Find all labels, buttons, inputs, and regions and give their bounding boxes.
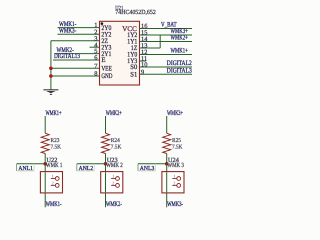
svg-text:DIGITAL13: DIGITAL13	[54, 53, 80, 60]
wire pin3 down to ground	[50, 41, 52, 90]
svg-text:VEE: VEE	[101, 66, 112, 73]
wire vertical bridge pins 15-13	[159, 35, 161, 48]
wire resistor to label WMK3-	[166, 154, 168, 208]
wire resistor to label WMK2-	[105, 154, 107, 208]
wire pin9 to DIGITAL3	[140, 73, 193, 75]
wire through connector U22	[44, 172, 46, 192]
wire pin10 to DIGITAL2	[140, 66, 193, 68]
junction at pin8 rail	[49, 74, 53, 78]
svg-text:1: 1	[52, 174, 54, 179]
svg-text:WMK3+: WMK3+	[167, 110, 183, 117]
wire pin2 to WMK3-	[58, 33, 100, 35]
svg-text:10: 10	[141, 62, 147, 69]
svg-text:GND: GND	[101, 73, 112, 80]
wire pin16 to V_BAT	[140, 28, 193, 30]
wire pin12 to WMK1+	[140, 54, 193, 56]
svg-text:1: 1	[112, 174, 114, 179]
svg-text:WMK3-: WMK3-	[59, 27, 77, 34]
svg-text:E: E	[101, 57, 105, 64]
svg-text:WMK3-: WMK3-	[167, 201, 184, 208]
svg-text:DIGITAL2: DIGITAL2	[167, 60, 192, 67]
wire pin8 GND to ground rail	[51, 75, 100, 77]
wire pin13 stub to bridge	[140, 47, 161, 49]
svg-text:WMK1-: WMK1-	[46, 201, 63, 208]
junction node ANL1	[43, 162, 47, 166]
svg-text:R23: R23	[51, 138, 60, 144]
connector U24 pin 2	[172, 181, 180, 188]
svg-text:R24: R24	[111, 138, 120, 144]
svg-text:WMK2+: WMK2+	[106, 110, 122, 117]
wire junction to ANL1 flag	[17, 163, 46, 165]
resistor R25	[163, 133, 171, 153]
wire resistor to label WMK1-	[44, 154, 46, 208]
svg-text:6: 6	[94, 55, 97, 62]
wire junction to ANL3 flag	[138, 163, 167, 165]
wire pin4 stub	[90, 46, 100, 48]
svg-text:DIGITAL3: DIGITAL3	[167, 67, 192, 74]
svg-text:S0: S0	[130, 64, 138, 71]
svg-text:S1: S1	[130, 71, 137, 78]
resistor R23	[41, 133, 49, 153]
svg-text:2: 2	[52, 181, 54, 186]
wire pin6 to DIGITAL13	[53, 59, 100, 61]
svg-text:WMK 3: WMK 3	[167, 162, 184, 169]
wire pin5 to WMK2-	[55, 53, 100, 55]
wire pin15 to WMK3+	[140, 34, 193, 36]
svg-text:WMK2+: WMK2+	[171, 35, 188, 42]
connector U23 pin 1	[111, 174, 119, 181]
wire through connector U24	[166, 172, 168, 192]
junction node ANL3	[165, 162, 169, 166]
connector U22 pin 2	[51, 181, 59, 188]
svg-text:2: 2	[112, 181, 114, 186]
wire pin11 stub	[140, 60, 147, 62]
wire pin7 VEE to ground rail	[51, 67, 100, 69]
svg-text:ANL2: ANL2	[79, 166, 94, 172]
resistor R24	[102, 133, 110, 153]
svg-text:2: 2	[173, 181, 175, 186]
wire WMK3+ down to resistor	[166, 116, 168, 133]
port flag ANL1	[17, 164, 34, 171]
svg-text:7.5K: 7.5K	[51, 145, 62, 151]
svg-text:WMK1+: WMK1+	[171, 48, 188, 55]
svg-text:ANL3: ANL3	[140, 166, 155, 172]
svg-text:WMK2-: WMK2-	[106, 201, 123, 208]
svg-text:7.5K: 7.5K	[111, 145, 122, 151]
junction node ANL2	[104, 162, 108, 166]
svg-text:1: 1	[173, 174, 175, 179]
wire junction to ANL2 flag	[77, 163, 106, 165]
wire WMK2+ down to resistor	[105, 116, 107, 133]
svg-text:WMK 1: WMK 1	[46, 162, 63, 169]
connector U23 body	[101, 172, 123, 193]
svg-text:WMK1+: WMK1+	[46, 110, 62, 117]
svg-text:8: 8	[94, 71, 97, 78]
connector U22 pin 1	[51, 174, 59, 181]
wire WMK1+ down to resistor	[44, 116, 46, 133]
junction at pin7 rail	[49, 67, 53, 71]
connector U23 pin 2	[111, 181, 119, 188]
connector U22 body	[40, 172, 62, 193]
IC U21 body	[100, 21, 140, 85]
svg-text:7.5K: 7.5K	[172, 145, 183, 151]
svg-text:74HC4052D,652: 74HC4052D,652	[115, 9, 156, 16]
port flag ANL3	[138, 164, 155, 171]
wire pin3 horizontal	[51, 40, 100, 42]
ground	[43, 90, 58, 95]
wire pin14 to WMK2+	[140, 41, 193, 43]
svg-text:WMK 2: WMK 2	[106, 162, 123, 169]
wire pin1 to WMK1-	[58, 27, 100, 29]
svg-text:R25: R25	[172, 138, 181, 144]
connector U24 pin 1	[172, 174, 180, 181]
svg-text:9: 9	[141, 69, 144, 76]
wire through connector U23	[105, 172, 107, 192]
svg-text:ANL1: ANL1	[18, 166, 33, 172]
connector U24 body	[162, 172, 184, 193]
port flag ANL2	[77, 164, 94, 171]
